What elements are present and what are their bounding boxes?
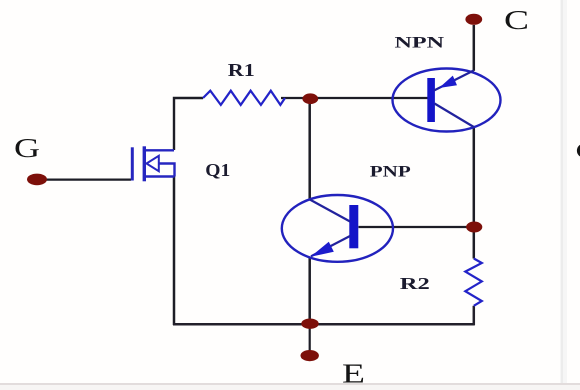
svg-text:G: G [14,133,40,163]
wire: NPN base lead (node A to NPN bar) [281,97,428,99]
MOSFET Q1 body arrow (open) [147,156,159,171]
svg-text:PNP: PNP [370,164,411,181]
wire: C terminal stub [473,25,476,71]
svg-text:Q1: Q1 [205,160,230,180]
node A: R1 output node dot [302,93,318,104]
wire: E terminal stub [309,324,311,351]
wire: bottom rail [173,323,475,326]
svg-text:E: E [342,359,365,389]
svg-text:NPN: NPN [395,35,445,52]
MOSFET Q1 gate bar [131,147,134,180]
transistor NPN base bar [427,78,435,122]
transistor PNP collector line [310,200,350,222]
transistor PNP emitter arrowhead [311,242,334,257]
faint column divider right [560,0,567,390]
wire: R2 bottom to bottom rail [473,306,476,325]
wire: G lead [40,179,131,181]
MOSFET Q1 source stub [145,175,175,177]
transistor PNP base bar [349,205,358,248]
node B: PNP base node dot [466,222,482,233]
resistor R2 zigzag [465,259,482,306]
MOSFET Q1 channel bar [143,146,146,181]
MOSFET Q1 body stub with corner [159,164,175,177]
transistor PNP emitter line [311,236,350,256]
MOSFET Q1 drain stub [145,149,174,151]
svg-text:C: C [504,5,529,35]
node: E terminal dot [301,350,319,361]
wire: right vertical (NPN emitter to node B) [473,127,476,227]
node: G terminal dot [27,174,47,186]
wire: PNP base lead (PNP bar to node B) [359,226,475,228]
resistor R1 zigzag [203,91,285,105]
faint bottom border line [0,383,580,385]
node: C terminal dot [465,14,482,25]
partial glyph at right edge [577,144,580,157]
node: bottom rail junction dot [301,319,318,329]
transistor NPN collector arrowhead [439,76,457,88]
transistor NPN circle [393,69,501,132]
wire: central vertical upper (node A to PNP collector) [308,99,311,200]
wire: node B to R2 top [473,227,476,259]
wire: left vertical upper (MOSFET drain to R1 corner) [174,98,203,150]
wire: left vertical lower (MOSFET source down to bottom rail) [173,177,176,326]
transistor NPN collector line [434,71,474,91]
svg-text:R2: R2 [400,274,430,293]
transistor NPN emitter line [435,104,474,128]
svg-text:R1: R1 [228,60,255,80]
wire: central vertical lower (PNP emitter to bottom rail) [308,257,311,325]
transistor PNP circle [282,195,393,262]
